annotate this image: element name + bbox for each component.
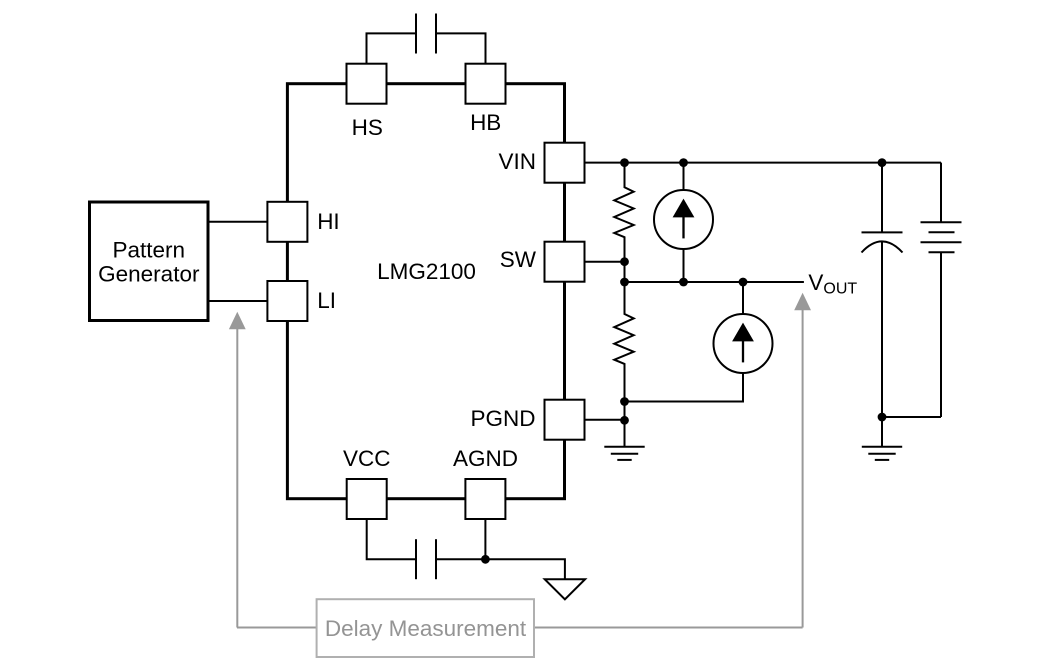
svg-text:VIN: VIN (498, 149, 536, 174)
svg-text:Generator: Generator (98, 262, 200, 287)
svg-text:PGND: PGND (470, 406, 535, 431)
svg-text:Delay Measurement: Delay Measurement (325, 616, 527, 641)
svg-text:VCC: VCC (343, 446, 391, 471)
svg-text:SW: SW (500, 247, 537, 272)
svg-text:LI: LI (317, 288, 336, 313)
svg-text:HS: HS (352, 115, 383, 140)
svg-text:LMG2100: LMG2100 (377, 259, 476, 284)
svg-text:HI: HI (317, 209, 340, 234)
svg-text:Pattern: Pattern (113, 238, 186, 263)
svg-text:HB: HB (470, 110, 501, 135)
svg-text:AGND: AGND (453, 446, 518, 471)
